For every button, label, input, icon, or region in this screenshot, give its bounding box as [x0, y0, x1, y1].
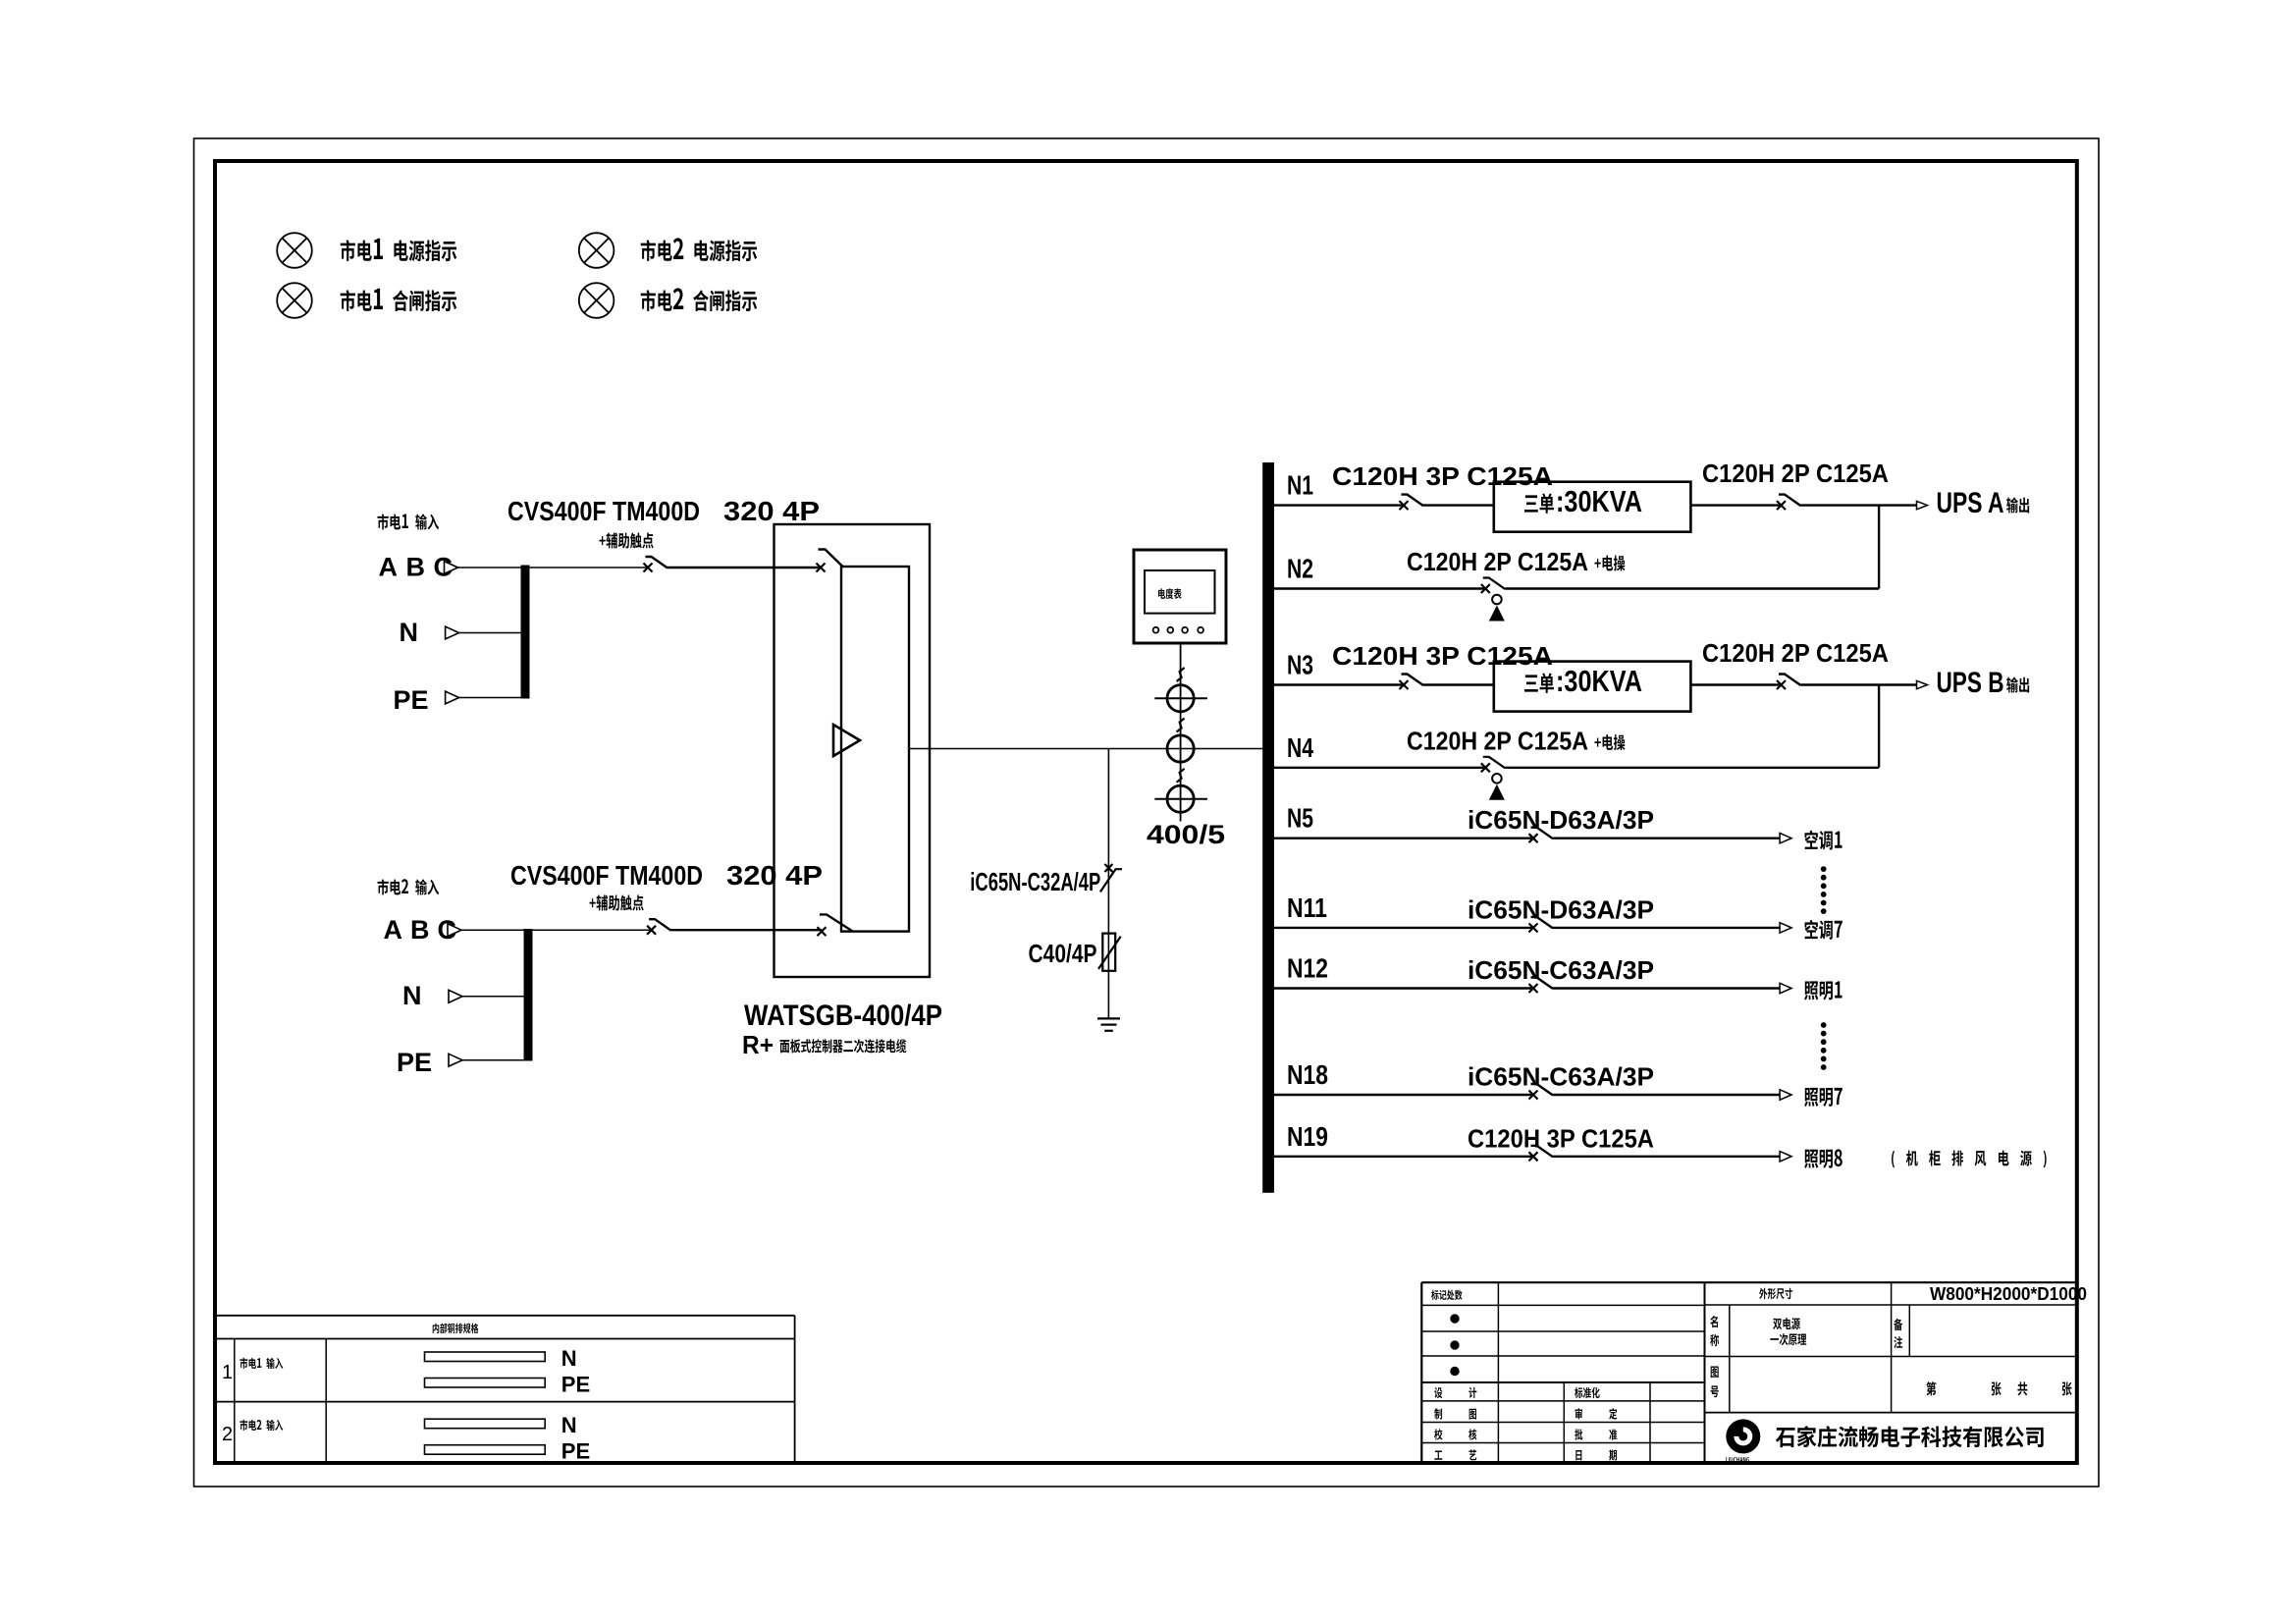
transformer T1 三单:30KVA box: [1494, 482, 1691, 532]
input 2 neutral arrow: [449, 990, 462, 1002]
breaker N19 C120H 3P C125A: [1529, 1152, 1538, 1161]
label 备注 (stacked): [1894, 1319, 1902, 1330]
arrow N18 output: [1780, 1090, 1791, 1100]
drawing name 一次原理: [1770, 1333, 1806, 1345]
svg-text:WATSGB-400/4P: WATSGB-400/4P: [744, 1000, 942, 1032]
drawing sheet outer thin border: [194, 138, 2100, 1487]
main distribution busbar (vertical): [1262, 462, 1274, 1193]
wire busbar to breaker QF1: [530, 567, 649, 568]
svg-text:C120H 3P C125A: C120H 3P C125A: [1468, 1123, 1654, 1153]
indicator lamp HL4 (mains 2 closed): [579, 283, 614, 318]
label 图号 (stacked): [1711, 1366, 1719, 1378]
label 制图: [1434, 1408, 1476, 1419]
meter display screen: [1145, 570, 1215, 614]
breaker N3 C120H 3P: [1400, 680, 1409, 689]
label HL2 市电1 合闸指示: [341, 289, 456, 311]
svg-text:N1: N1: [1287, 470, 1313, 501]
arrow N5 output: [1780, 834, 1791, 843]
revision circle row 1: [1451, 1315, 1459, 1323]
label 审定: [1575, 1408, 1618, 1419]
wire N1 breaker to transformer: [1423, 504, 1494, 506]
row2 N busbar symbol: [425, 1419, 546, 1429]
label 设计: [1434, 1387, 1476, 1398]
indicator lamp HL1 (mains 1 power): [277, 233, 312, 268]
drawing name 双电源: [1773, 1318, 1800, 1329]
wire N1b to UPS A arrow: [1801, 504, 1919, 506]
CT secondary squiggle 2: [1177, 719, 1185, 732]
motor operator symbol 电操: [1492, 774, 1502, 784]
wire N11 breaker to arrow: [1553, 927, 1781, 929]
label 电度表: [1158, 588, 1182, 599]
svg-text:iC65N-C63A/3P: iC65N-C63A/3P: [1468, 1062, 1654, 1092]
svg-text:iC65N-C63A/3P: iC65N-C63A/3P: [1468, 955, 1654, 985]
svg-text:N: N: [561, 1346, 577, 1371]
wire N12 busbar to breaker: [1273, 987, 1533, 989]
label QF1 +辅助触点: [599, 532, 653, 548]
input 1 phase arrow: [445, 562, 458, 574]
svg-text:N5: N5: [1287, 803, 1313, 834]
ground symbol: [1097, 1017, 1120, 1019]
svg-text:2: 2: [222, 1424, 233, 1445]
row1 PE busbar symbol: [425, 1379, 546, 1388]
wire busbar2 to breaker QF2: [533, 929, 652, 931]
breaker N12 iC65N-C63A/3P: [1529, 984, 1538, 993]
svg-text:A: A: [384, 915, 403, 945]
label HL3 市电2 电源指示: [641, 238, 757, 261]
wire SPD branch vertical: [1107, 749, 1109, 1019]
wire N5 busbar to breaker: [1273, 838, 1533, 839]
svg-text:CVS400F TM400D: CVS400F TM400D: [510, 860, 703, 891]
label mains input 2 市电2输入: [378, 879, 440, 894]
wire N11 busbar to breaker: [1273, 927, 1533, 929]
svg-text:320 4P: 320 4P: [723, 496, 820, 526]
arrow UPS A output: [1917, 501, 1928, 509]
svg-text:A: A: [379, 553, 399, 582]
label T1 三单:30KVA: [1524, 493, 1554, 514]
ellipsis dots between N5 and N11: [1821, 867, 1826, 872]
transformer T2 三单:30KVA box: [1494, 662, 1691, 712]
svg-text:PE: PE: [561, 1439, 590, 1464]
svg-text:N: N: [561, 1413, 577, 1437]
company logo: [1726, 1419, 1760, 1453]
input 2 phase arrow: [448, 924, 461, 937]
title block grid: [1421, 1281, 2077, 1283]
svg-text:PE: PE: [394, 685, 429, 715]
row2 PE busbar symbol: [425, 1445, 546, 1455]
label 标准化: [1575, 1387, 1600, 1398]
wire N19 busbar to breaker: [1273, 1156, 1533, 1158]
surge arrester varistor C40/4P: [1102, 934, 1115, 971]
wire N18 busbar to breaker: [1273, 1094, 1533, 1096]
breaker N1b C120H 2P: [1777, 501, 1786, 510]
wire N3 tie down to N4: [1878, 685, 1880, 768]
label 校核: [1434, 1429, 1476, 1439]
input 2 PE arrow: [449, 1054, 462, 1066]
svg-text:B: B: [410, 915, 430, 945]
arrow N11 output: [1780, 923, 1791, 933]
current transformer CT3: [1167, 785, 1194, 812]
svg-text:1: 1: [222, 1362, 233, 1383]
indicator lamp HL2 (mains 1 closed): [277, 283, 312, 318]
arrow N19 output: [1780, 1152, 1791, 1162]
svg-text::30KVA: :30KVA: [1556, 484, 1642, 518]
wire N3b to UPS B arrow: [1801, 683, 1919, 685]
wire QF2 to ATS lower pole: [671, 929, 822, 931]
svg-text:C120H 2P C125A: C120H 2P C125A: [1407, 727, 1588, 756]
svg-text:C120H 3P C125A: C120H 3P C125A: [1332, 461, 1553, 491]
ATS direction triangle: [833, 725, 860, 756]
label 外形尺寸: [1759, 1288, 1792, 1299]
wire input1 phase to busbar: [458, 567, 521, 568]
svg-text::30KVA: :30KVA: [1556, 664, 1642, 698]
svg-text:C120H 2P C125A: C120H 2P C125A: [1702, 459, 1889, 488]
ATS lower pole switch contact: [818, 927, 827, 936]
label 工艺: [1434, 1449, 1476, 1460]
wire meter to CT chain: [1180, 643, 1182, 822]
breaker N5 iC65N-D63A/3P: [1529, 834, 1538, 842]
svg-text:N4: N4: [1287, 732, 1313, 763]
wire N2 busbar to breaker: [1273, 587, 1485, 589]
svg-text:N18: N18: [1287, 1059, 1328, 1090]
wire N1 tie down to N2: [1878, 506, 1880, 589]
arrow UPS B output: [1917, 680, 1928, 688]
breaker N11 iC65N-D63A/3P: [1529, 923, 1538, 932]
label HL1 市电1 电源指示: [341, 239, 456, 261]
label 日期: [1575, 1449, 1617, 1460]
svg-text:N12: N12: [1287, 953, 1328, 984]
table row1 label 市电1输入: [240, 1358, 283, 1369]
wire input2 phase to busbar: [461, 929, 524, 931]
input 1 neutral arrow: [446, 626, 459, 639]
wire input2 N to busbar: [462, 996, 524, 998]
company name 石家庄流畅电子科技有限公司: [1776, 1426, 2044, 1447]
wire input1 N to busbar: [459, 632, 521, 634]
label QF2 +辅助触点: [589, 894, 643, 910]
breaker QF-SPD contact: [1104, 864, 1112, 872]
svg-text:R+: R+: [742, 1030, 774, 1059]
wire QF1 to ATS upper pole: [667, 567, 821, 568]
terminal table outline: [215, 1315, 795, 1317]
svg-text:UPS B: UPS B: [1937, 667, 2004, 699]
input 1 PE arrow: [446, 691, 459, 704]
wire N5 breaker to arrow: [1553, 838, 1781, 839]
wire N19 breaker to arrow: [1553, 1156, 1781, 1158]
label 机柜排风电源 note: [1892, 1151, 2047, 1168]
CT secondary squiggle 1: [1177, 668, 1185, 681]
revision circle row 3: [1451, 1367, 1459, 1375]
wire input1 PE to busbar: [459, 697, 521, 699]
wire N3 breaker to transformer: [1423, 683, 1494, 685]
wire N1 busbar to breaker: [1273, 504, 1404, 506]
svg-text:C40/4P: C40/4P: [1029, 939, 1097, 968]
wire N12 breaker to arrow: [1553, 987, 1781, 989]
wire input2 PE to busbar: [462, 1059, 524, 1061]
svg-text:UPS A: UPS A: [1937, 487, 2004, 519]
breaker N18 iC65N-C63A/3P: [1529, 1091, 1538, 1100]
svg-text:PE: PE: [397, 1048, 432, 1077]
ellipsis dots between N12 and N18: [1821, 1023, 1826, 1028]
svg-text:400/5: 400/5: [1147, 820, 1225, 849]
label 照明7 (N18 load): [1804, 1088, 1842, 1107]
svg-text:N: N: [402, 981, 422, 1010]
CT secondary squiggle 3: [1177, 769, 1185, 783]
drawing sheet inner thick border: [215, 161, 2077, 1463]
arrow N12 output: [1780, 983, 1791, 993]
label mains input 1 市电1输入: [378, 514, 440, 529]
svg-text:C120H 2P C125A: C120H 2P C125A: [1702, 638, 1889, 668]
indicator lamp HL3 (mains 2 power): [579, 233, 614, 268]
wire T2 to breaker N3b: [1690, 683, 1781, 685]
terminal busbar input 1: [521, 566, 530, 699]
label 批准: [1575, 1429, 1617, 1439]
svg-text:PE: PE: [561, 1373, 590, 1397]
svg-text:CVS400F TM400D: CVS400F TM400D: [507, 496, 700, 526]
svg-text:W800*H2000*D1000: W800*H2000*D1000: [1930, 1284, 2087, 1304]
label 照明1 (N12 load): [1804, 981, 1842, 1000]
svg-text:N: N: [400, 618, 419, 647]
svg-text:iC65N-D63A/3P: iC65N-D63A/3P: [1468, 894, 1654, 924]
label 名称 (stacked): [1710, 1316, 1718, 1327]
terminal busbar input 2: [524, 929, 533, 1061]
svg-text:iC65N-C32A/4P: iC65N-C32A/4P: [970, 867, 1100, 896]
power meter 电度表 box: [1134, 550, 1226, 643]
wire N4 busbar to breaker: [1273, 767, 1485, 769]
svg-text:B: B: [406, 553, 426, 582]
breaker N4 C120H 2P motorized: [1481, 763, 1490, 772]
label 空调7 (N11 load): [1805, 920, 1842, 940]
meter buttons (4 dots): [1153, 627, 1159, 633]
table row2 label 市电2输入: [240, 1420, 283, 1431]
ATS WATSGB-400/4P outer box: [774, 524, 931, 977]
revision circle row 2: [1451, 1341, 1459, 1349]
svg-text:N2: N2: [1287, 554, 1313, 584]
breaker N1 C120H 3P: [1400, 501, 1409, 510]
current transformer CT1: [1167, 685, 1194, 712]
ATS inner switch box: [841, 567, 909, 932]
svg-text:N11: N11: [1287, 893, 1327, 923]
wire T1 to breaker N1b: [1690, 504, 1781, 506]
svg-text:N19: N19: [1287, 1121, 1328, 1152]
wire N3 busbar to breaker: [1273, 683, 1404, 685]
wire N4 to UPS B tie: [1505, 767, 1879, 769]
svg-text:C120H 2P C125A: C120H 2P C125A: [1407, 547, 1588, 576]
svg-text:C120H 3P C125A: C120H 3P C125A: [1332, 641, 1553, 671]
table header 内部铜排规格: [433, 1324, 479, 1333]
breaker N3b C120H 2P: [1777, 680, 1786, 689]
label T2 三单:30KVA: [1524, 673, 1554, 693]
wire N2 to UPS A tie: [1505, 587, 1879, 589]
label 照明8 (N19 load): [1804, 1149, 1842, 1167]
ATS upper pole switch contact: [817, 564, 826, 572]
svg-text:iC65N-D63A/3P: iC65N-D63A/3P: [1468, 805, 1654, 835]
svg-text:N3: N3: [1287, 650, 1313, 680]
sheet numbering 第 张 共 张: [1926, 1381, 1936, 1395]
row1 N busbar symbol: [425, 1352, 546, 1362]
label HL4 市电2 合闸指示: [641, 288, 757, 311]
title row 标记处数: [1431, 1290, 1462, 1300]
wire ATS output main line to busbar: [909, 748, 1263, 750]
wire N18 breaker to arrow: [1553, 1094, 1781, 1096]
breaker N2 C120H 2P motorized: [1481, 584, 1490, 593]
breaker QF1 (CVS400F input 1): [644, 564, 653, 572]
label 空调1 (N5 load): [1805, 831, 1842, 850]
current transformer CT2 (on main line): [1167, 735, 1194, 762]
motor operator symbol 电操: [1492, 595, 1502, 605]
breaker QF2 (CVS400F input 2): [647, 926, 656, 935]
